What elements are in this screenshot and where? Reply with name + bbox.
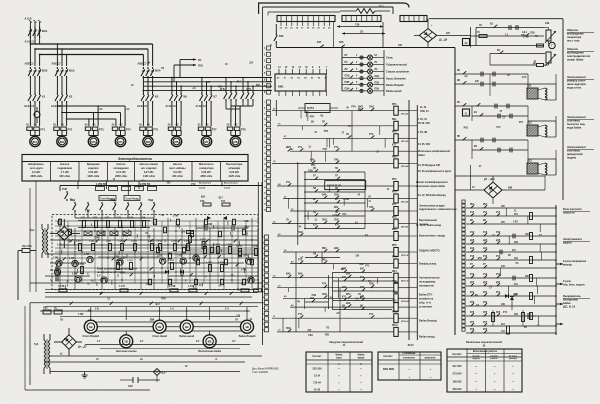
svg-text:1-Р7: 1-Р7 — [76, 241, 81, 243]
svg-text:1-Р13: 1-Р13 — [171, 241, 178, 243]
contact branch ГМ — [305, 254, 340, 258]
wire — [89, 130, 98, 135]
wire — [60, 186, 262, 192]
contact rung В1 — [476, 22, 550, 30]
wire labels — [88, 288, 253, 321]
svg-text:Тр1: Тр1 — [30, 228, 35, 232]
svg-text:0,6 кВт: 0,6 кВт — [32, 171, 41, 174]
svg-text:0,08 кВт: 0,08 кВт — [201, 171, 212, 174]
wire — [455, 165, 545, 190]
svg-text:РТ1: РТ1 — [298, 147, 303, 149]
wire harness — [78, 314, 250, 331]
svg-text:Р23: Р23 — [470, 302, 475, 304]
svg-text:В50: В50 — [334, 207, 339, 209]
svg-text:1-Р18: 1-Р18 — [188, 286, 195, 288]
svg-text:РП6: РП6 — [392, 245, 397, 247]
terminal strip ШК3 — [262, 235, 269, 332]
svg-text:П1В: П1В — [334, 220, 339, 222]
svg-text:2В: 2В — [158, 325, 162, 329]
svg-text:РВ1: РВ1 — [308, 335, 313, 337]
svg-text:Выключение отвода: Выключение отвода — [419, 234, 446, 238]
svg-text:Вентилятора: Вентилятора — [226, 163, 243, 166]
svg-text:5В: 5В — [124, 340, 128, 344]
annotation — [567, 75, 594, 90]
junction box 29 — [463, 39, 470, 46]
svg-text:Гидравлический: Гидравлический — [386, 63, 407, 67]
contact branch П8 — [304, 188, 365, 193]
relay coil РП8 — [277, 281, 409, 292]
svg-text:Пр2: Пр2 — [43, 307, 48, 310]
wire — [276, 100, 328, 309]
contact rung РН1 — [466, 204, 557, 216]
field winding ОВГ — [545, 28, 556, 46]
svg-text:04, 05, 04Б: 04, 05, 04Б — [418, 143, 430, 146]
contacts П1Д П2Д row — [62, 187, 155, 212]
svg-text:П3Н: П3Н — [369, 107, 374, 109]
svg-text:4-Г: 4-Г — [232, 340, 236, 343]
wire — [57, 78, 66, 93]
terminal block Ш3 — [400, 16, 427, 22]
wire Л6 — [143, 85, 272, 87]
table motors title — [118, 157, 153, 161]
wire — [57, 43, 68, 66]
svg-text:Бабка ЕТУ-: Бабка ЕТУ- — [419, 293, 433, 297]
svg-text:АЗ-1: АЗ-1 — [522, 31, 528, 34]
svg-text:Д7 ... Д10: Д7 ... Д10 — [484, 178, 495, 181]
svg-text:включено: включено — [424, 358, 436, 360]
svg-text:Включение переключателей: Включение переключателей — [466, 340, 502, 344]
svg-text:РВ1: РВ1 — [392, 119, 397, 121]
wire — [0, 0, 1, 1]
ammeter А — [34, 107, 40, 123]
relay coil РВ3 — [277, 229, 409, 240]
wire — [279, 91, 327, 96]
contact rung Р21 — [466, 292, 557, 304]
thermal relay РТ1 — [26, 124, 46, 132]
svg-text:Насоса: Насоса — [117, 163, 127, 166]
wire — [57, 103, 66, 126]
svg-text:П1В: П1В — [298, 232, 303, 234]
svg-text:РП4: РП4 — [324, 130, 329, 133]
svg-text:Смазка шпинделя: Смазка шпинделя — [386, 70, 409, 74]
wire — [143, 130, 152, 135]
svg-text:1-Р17: 1-Р17 — [236, 246, 243, 248]
svg-text:Вращения: Вращения — [87, 163, 100, 166]
svg-text:РП7: РП7 — [392, 257, 397, 259]
svg-text:1-А: 1-А — [170, 308, 174, 311]
contact branch РТЗ — [333, 287, 392, 291]
relay coil РП10 — [272, 311, 410, 323]
svg-text:2-Г: 2-Г — [140, 340, 144, 343]
svg-text:РВ1: РВ1 — [180, 276, 185, 278]
svg-text:Л14: Л14 — [237, 81, 242, 84]
svg-text:Реле контроля: Реле контроля — [563, 207, 582, 211]
wire rail right — [408, 100, 410, 340]
resistor 1-Р11 — [187, 201, 231, 234]
svg-text:РВ5: РВ5 — [392, 300, 397, 302]
svg-text:1-Р12: 1-Р12 — [156, 241, 163, 243]
wire — [225, 77, 254, 92]
wire grid — [30, 218, 262, 290]
svg-text:В4Т: В4Т — [360, 268, 365, 271]
svg-text:1-ПМ: 1-ПМ — [241, 269, 247, 271]
svg-text:Бабка Вперёд: Бабка Вперёд — [239, 335, 256, 338]
wire — [75, 212, 154, 218]
bridge rectifier В3 — [54, 328, 87, 356]
wire — [226, 101, 253, 126]
amplifier block label — [97, 267, 137, 278]
wire 23 — [342, 30, 385, 35]
relay coil РП6 — [283, 245, 410, 257]
svg-text:Д15: Д15 — [483, 240, 488, 242]
terminal strip ШК4 — [462, 200, 465, 331]
relay coil РВ2 — [272, 157, 409, 169]
wire — [445, 27, 471, 48]
svg-text:5Б: 5Б — [508, 255, 511, 257]
contact rung Р7 — [466, 264, 557, 276]
svg-text:Р17: Р17 — [483, 212, 488, 214]
svg-text:(Л18,08: (Л18,08 — [401, 226, 409, 228]
svg-text:1-Р3: 1-Р3 — [123, 236, 129, 238]
contact rung Д15 — [466, 240, 557, 252]
capacitor С5 С6 — [196, 226, 248, 231]
svg-text:1-Р11: 1-Р11 — [131, 241, 137, 243]
bridge rectifier В1 — [50, 219, 80, 248]
svg-text:А4 В4 С4: А4 В4 С4 — [196, 105, 207, 108]
thermal relay РТ6 — [168, 124, 181, 131]
svg-text:Бабка назад: Бабка назад — [419, 335, 435, 339]
wire — [268, 12, 340, 16]
svg-text:Вперёд ускор.: Вперёд ускор. — [419, 262, 437, 266]
svg-text:3-Г: 3-Г — [196, 340, 200, 343]
svg-text:1-П6: 1-П6 — [69, 258, 75, 260]
lamp Л1 — [342, 54, 394, 60]
svg-text:шлифов-ка: шлифов-ка — [419, 297, 434, 301]
wire Л8 — [143, 90, 272, 92]
contact rung Р19 — [466, 274, 557, 286]
contact branch П7 — [304, 176, 365, 181]
svg-text:11, 04: 11, 04 — [420, 106, 427, 109]
svg-text:Д15: Д15 — [496, 240, 501, 242]
svg-text:П1В: П1В — [308, 171, 313, 173]
connector ВМ1 — [275, 66, 328, 91]
svg-text:подачи: подачи — [567, 157, 577, 160]
svg-text:Р17: Р17 — [496, 212, 501, 214]
svg-text:РН1: РН1 — [470, 204, 475, 206]
tachogenerator 6В — [198, 331, 222, 353]
svg-text:Шлифоваль-: Шлифоваль- — [28, 163, 44, 166]
table switch positions 2 — [378, 352, 441, 380]
svg-text:0,6 кВт: 0,6 кВт — [173, 171, 182, 174]
svg-text:РП4: РП4 — [310, 116, 315, 119]
svg-text:ГМ: ГМ — [313, 254, 316, 256]
svg-text:РП1: РП1 — [392, 104, 397, 106]
svg-text:включения смазки бабки: включения смазки бабки — [416, 186, 446, 188]
svg-text:Бабка: Бабка — [336, 355, 344, 357]
svg-text:ВА1: ВА1 — [42, 29, 48, 33]
svg-text:930 об/м: 930 об/м — [60, 175, 71, 178]
wire — [556, 263, 563, 266]
contact branch КЗТ — [304, 225, 365, 230]
wire — [30, 22, 39, 44]
contact cluster — [63, 239, 239, 276]
svg-text:РП4: РП4 — [323, 148, 328, 151]
svg-text:П3В: П3В — [375, 82, 380, 84]
svg-text:РН1: РН1 — [483, 204, 488, 206]
motor М2 — [57, 136, 67, 146]
svg-text:04Б: 04Б — [244, 220, 249, 223]
wire — [202, 103, 211, 126]
wire labels — [70, 179, 224, 212]
wire Л10 — [174, 64, 204, 68]
svg-text:Контакт: Контакт — [313, 356, 323, 358]
svg-text:РТ8: РТ8 — [241, 127, 246, 131]
svg-text:сепаратора: сепаратора — [199, 167, 214, 170]
resistor Р32 — [522, 310, 525, 326]
fuse Пр2 — [43, 307, 62, 315]
svg-text:эл/шкафа: эл/шкафа — [228, 167, 241, 170]
svg-text:Д17: Д17 — [483, 282, 488, 284]
svg-text:А2В2С2: А2В2С2 — [138, 63, 148, 66]
field winding ОВД — [544, 52, 557, 66]
svg-text:Р15: Р15 — [470, 256, 475, 258]
wire — [556, 323, 563, 326]
svg-text:Р29: Р29 — [483, 329, 488, 331]
wire rail labels — [409, 105, 417, 340]
contactor contacts К1 — [24, 93, 46, 108]
contact rung АЗ-1 — [471, 31, 545, 38]
svg-text:Контакт: Контакт — [384, 356, 394, 358]
svg-text:Электромагнит: Электромагнит — [567, 75, 587, 79]
svg-text:1-ПМ: 1-ПМ — [343, 199, 349, 201]
capacitor С2 С3 С4 — [50, 267, 58, 282]
wire — [90, 307, 248, 320]
svg-text:К2Т: К2Т — [392, 204, 397, 206]
contact rung Р15 — [466, 256, 557, 261]
wire labels — [299, 105, 390, 237]
svg-text:1-Р8: 1-Р8 — [89, 241, 94, 243]
svg-text:РВ1: РВ1 — [322, 259, 327, 261]
svg-text:А4 В4 С4: А4 В4 С4 — [24, 105, 35, 108]
svg-text:М6: М6 — [174, 140, 178, 144]
contact rung В5 — [466, 220, 557, 232]
svg-text:1420 об/м: 1420 об/м — [87, 175, 99, 178]
lamp Л4 — [342, 75, 406, 81]
contact rung Д1 — [490, 50, 545, 67]
svg-text:1-Р22: 1-Р22 — [168, 260, 175, 262]
svg-text:Бабка назад: Бабка назад — [386, 89, 402, 93]
svg-text:Выпрямитель: Выпрямитель — [563, 294, 581, 298]
motor М3 — [88, 136, 98, 146]
svg-text:1-Р3: 1-Р3 — [85, 210, 91, 212]
svg-text:В-РТ2: В-РТ2 — [307, 107, 315, 110]
svg-text:ТС1: ТС1 — [379, 5, 384, 9]
svg-text:вперёд: вперёд — [563, 264, 572, 267]
svg-text:273-224: 273-224 — [453, 373, 463, 376]
svg-text:1-Р1Б: 1-Р1Б — [58, 286, 65, 288]
svg-text:Р13: Р13 — [470, 232, 475, 234]
svg-text:шп. изделия: шп. изделия — [141, 167, 157, 170]
svg-text:Обмотка: Обмотка — [567, 28, 578, 32]
relay coil К2Т — [290, 204, 409, 215]
svg-text:П1В: П1В — [322, 294, 327, 296]
tachogenerator 5В — [116, 331, 137, 353]
svg-text:2-У: 2-У — [97, 275, 101, 277]
relay coil right — [530, 257, 533, 264]
wire — [143, 77, 154, 92]
relay coil РП1 — [272, 104, 409, 116]
svg-text:(Л116,07: (Л116,07 — [401, 321, 410, 323]
svg-text:13-14: 13-14 — [314, 374, 321, 377]
net labels right — [563, 260, 587, 287]
svg-text:РТ2: РТ2 — [298, 259, 303, 261]
svg-text:РТ2: РТ2 — [496, 127, 501, 129]
svg-text:R-Т: R-Т — [162, 371, 167, 375]
svg-text:(Л16,06: (Л16,06 — [401, 201, 409, 203]
tachogenerator 4В — [239, 320, 256, 338]
svg-text:бабки: бабки — [418, 155, 425, 157]
svg-text:Бабка назад: Бабка назад — [179, 335, 194, 338]
resistor row 1-Р1Б.. — [58, 286, 262, 292]
annotation — [567, 47, 594, 62]
thermal relay РТ2 — [53, 124, 73, 132]
svg-text:6В: 6В — [208, 340, 212, 344]
contactor КГВ КГН — [220, 88, 254, 101]
relay coil РП5 — [272, 217, 409, 229]
caption — [411, 343, 414, 347]
wire labels — [475, 210, 543, 329]
svg-text:Д15: Д15 — [470, 240, 475, 242]
svg-text:К7: К7 — [214, 95, 218, 99]
svg-text:В18: В18 — [339, 41, 344, 44]
svg-text:М4: М4 — [118, 140, 122, 144]
svg-text:Потолочная бабка: Потолочная бабка — [198, 350, 222, 353]
svg-text:В14: В14 — [470, 247, 475, 250]
svg-text:М7: М7 — [204, 140, 208, 144]
tachogenerator 3В — [179, 320, 194, 338]
relay coil РП11 — [277, 325, 409, 336]
annotation — [563, 237, 590, 245]
terminal L1 L2 L3 — [24, 17, 41, 23]
wire — [174, 60, 180, 82]
wire labels — [505, 33, 538, 63]
svg-text:5Б: 5Б — [147, 63, 150, 65]
wire — [383, 50, 385, 96]
wire labels — [297, 255, 371, 336]
svg-text:РТ7: РТ7 — [212, 127, 217, 131]
svg-text:РТ4: РТ4 — [126, 127, 131, 131]
svg-text:К1Т: К1Т — [392, 144, 397, 146]
svg-text:К1: К1 — [42, 95, 46, 99]
table motors frame — [22, 155, 248, 182]
resistor Р33 — [507, 326, 510, 334]
svg-text:Тр2: Тр2 — [34, 343, 39, 346]
rectifier plates В2 — [84, 231, 131, 236]
svg-text:К5: К5 — [155, 95, 159, 99]
svg-text:04Б: 04Б — [359, 263, 364, 266]
svg-text:гидропанели с зависимостью: гидропанели с зависимостью — [419, 208, 458, 211]
svg-text:180: 180 — [398, 44, 403, 47]
wire — [143, 78, 152, 93]
contact rung Р27 — [466, 322, 557, 327]
svg-text:Бабка Вперёд: Бабка Вперёд — [386, 83, 404, 87]
svg-text:В49: В49 — [322, 193, 327, 196]
svg-text:Д17: Д17 — [496, 282, 501, 284]
svg-text:В49: В49 — [286, 273, 291, 276]
svg-text:КЗТ: КЗТ — [335, 225, 340, 227]
wire — [0, 0, 1, 1]
wire — [201, 77, 212, 93]
relay coil РП3 — [277, 179, 409, 190]
wire — [322, 111, 365, 332]
svg-text:натяжителя: натяжителя — [419, 285, 434, 288]
svg-text:(Л114,05: (Л114,05 — [401, 300, 410, 303]
contact cluster — [70, 292, 243, 305]
svg-text:П1В: П1В — [375, 76, 380, 78]
svg-text:(Л112,03: (Л112,03 — [401, 281, 410, 283]
svg-text:П3Н: П3Н — [322, 220, 327, 222]
svg-text:РТ4: РТ4 — [322, 283, 327, 286]
svg-text:Загрузка переключателей: Загрузка переключателей — [329, 340, 363, 344]
svg-text:ГМ1: ГМ1 — [334, 159, 339, 161]
svg-text:Л10: Л10 — [198, 64, 204, 68]
svg-text:41-42: 41-42 — [314, 388, 321, 391]
svg-text:РТ2: РТ2 — [369, 314, 374, 316]
circuit breaker ВА3 — [52, 63, 75, 79]
svg-text:1-Р17: 1-Р17 — [119, 286, 126, 288]
svg-text:П3Н: П3Н — [375, 89, 380, 91]
svg-text:10, АГ, 5В Бабка Вперёд: 10, АГ, 5В Бабка Вперёд — [418, 194, 446, 197]
svg-text:РВ1: РВ1 — [256, 85, 261, 87]
svg-text:РТ2: РТ2 — [67, 127, 72, 131]
generator symbol Г — [471, 42, 556, 48]
svg-text:РТ3: РТ3 — [298, 314, 303, 316]
svg-text:В50: В50 — [201, 197, 206, 199]
svg-text:1-ПМ: 1-ПМ — [173, 216, 179, 218]
svg-text:1-Р2: 1-Р2 — [93, 218, 99, 220]
svg-text:1-Р4: 1-Р4 — [117, 217, 123, 220]
wire labels — [464, 75, 527, 168]
thermal relay РТ7 — [198, 124, 218, 132]
resistor bank 1-Р1..1-Р6 — [78, 217, 150, 228]
wire labels — [131, 62, 261, 90]
svg-text:пост. тока: пост. тока — [567, 40, 580, 43]
svg-text:1-ПМ 5Б: 1-ПМ 5Б — [96, 182, 106, 186]
svg-text:отключено: отключено — [403, 358, 416, 360]
wire — [471, 28, 564, 46]
svg-text:РВ2: РВ2 — [392, 157, 397, 159]
motor М8 — [230, 136, 240, 146]
svg-text:В50: В50 — [346, 274, 351, 276]
svg-text:РТ3: РТ3 — [99, 127, 104, 131]
svg-text:В50: В50 — [478, 258, 483, 260]
contact branch В4Т — [333, 268, 392, 273]
annotation — [567, 145, 594, 160]
wire — [30, 293, 262, 307]
svg-text:В3: В3 — [64, 337, 68, 341]
svg-text:2800 об/м: 2800 об/м — [115, 175, 127, 178]
svg-text:1-Р3: 1-Р3 — [105, 218, 111, 220]
svg-text:А4 В4 С4: А4 В4 С4 — [166, 105, 177, 108]
svg-text:Электромагнит: Электромагнит — [567, 115, 587, 119]
svg-text:21А: 21А — [150, 319, 155, 322]
switch В48 — [270, 24, 284, 47]
wire — [341, 47, 343, 91]
svg-text:В14: В14 — [483, 247, 488, 250]
bus Л2 — [35, 49, 148, 66]
relay coil right — [530, 233, 533, 240]
svg-text:РП2: РП2 — [346, 294, 351, 296]
